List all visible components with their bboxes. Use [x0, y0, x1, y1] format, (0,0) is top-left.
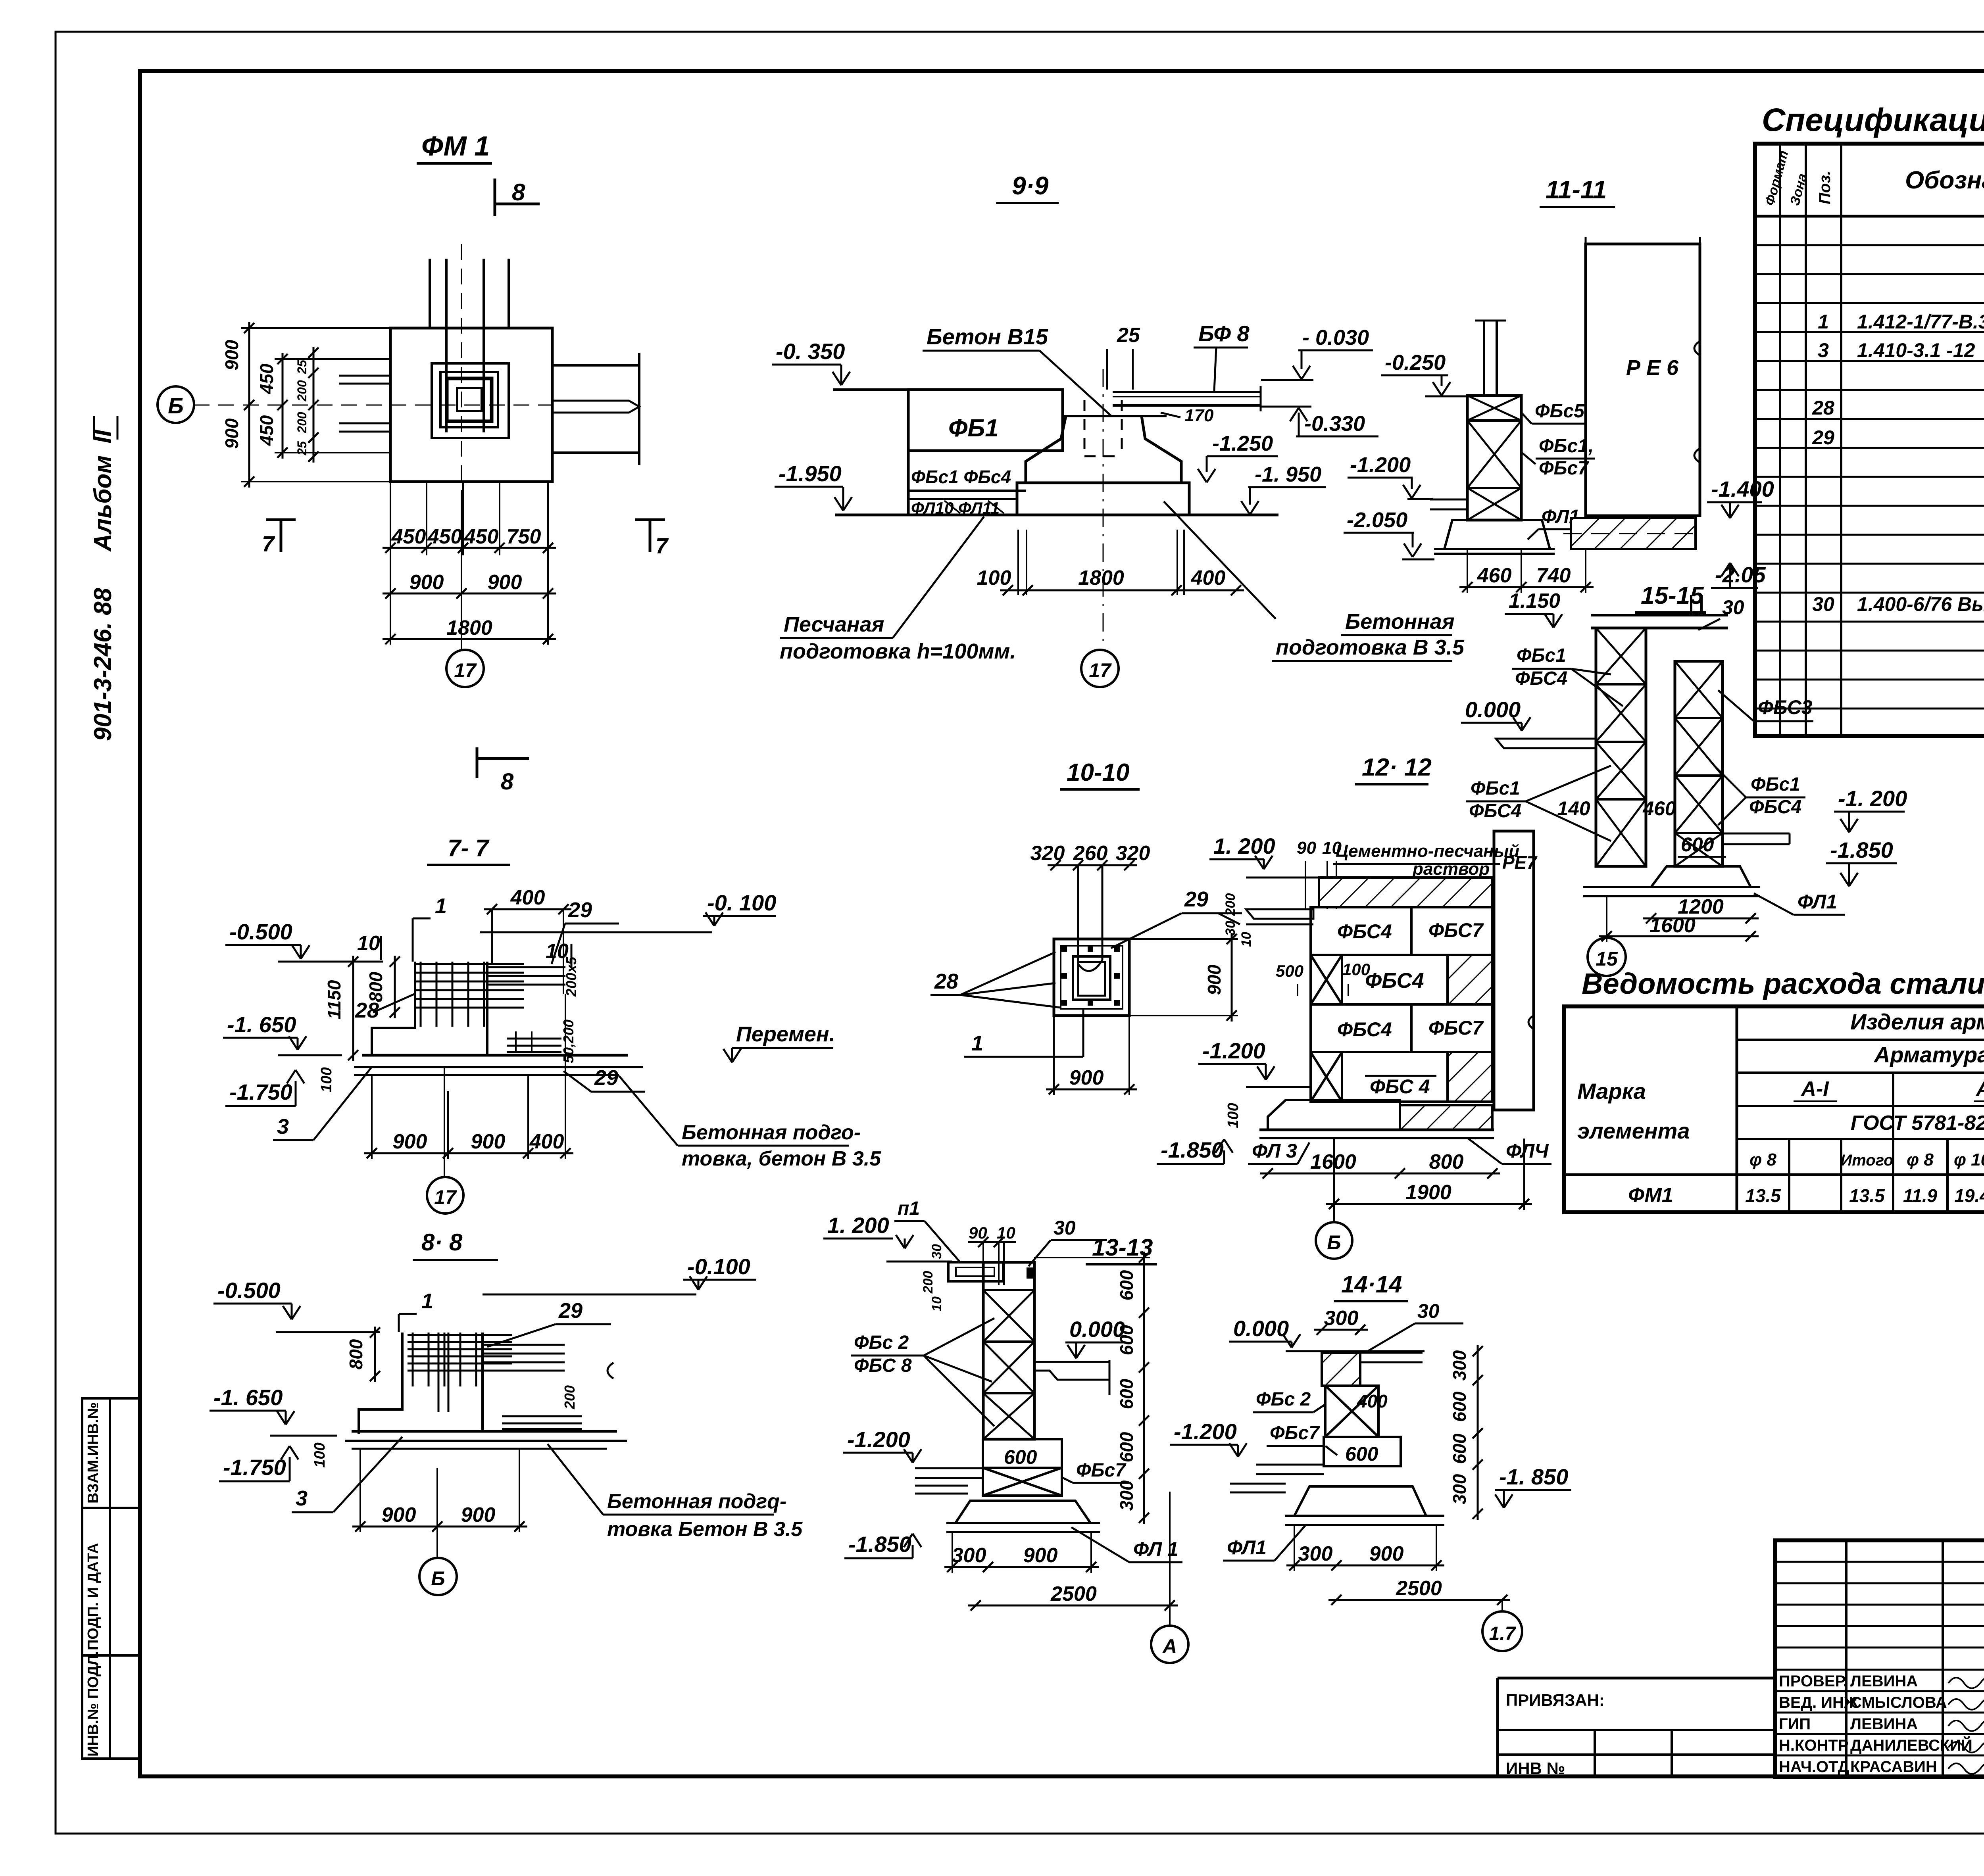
svg-text:900: 900 [221, 340, 242, 370]
svg-text:10: 10 [1239, 932, 1254, 947]
svg-text:-1.850: -1.850 [1161, 1137, 1224, 1162]
svg-text:450: 450 [256, 363, 277, 394]
svg-text:10: 10 [997, 1223, 1015, 1242]
svg-text:600: 600 [1004, 1446, 1037, 1468]
steel table grid [1564, 1006, 1984, 1212]
svg-text:900: 900 [221, 418, 242, 449]
centerline axis 9-9 [1103, 369, 1104, 647]
section cut mark 7 left [266, 518, 296, 521]
svg-text:0.000: 0.000 [1465, 697, 1521, 722]
svg-text:3: 3 [1818, 339, 1829, 361]
svg-text:800: 800 [346, 1339, 366, 1369]
rebar cage 7-7 verticals [420, 962, 422, 1027]
svg-text:ФМ 1: ФМ 1 [421, 131, 490, 161]
svg-text:ФБс1: ФБс1 [1517, 645, 1566, 666]
svg-text:400: 400 [510, 886, 545, 909]
svg-text:ФБс 2: ФБс 2 [854, 1332, 909, 1353]
svg-text:Р Е 6: Р Е 6 [1626, 356, 1679, 380]
svg-text:100: 100 [1225, 1103, 1242, 1128]
svg-text:8· 8: 8· 8 [421, 1229, 463, 1256]
svg-text:300: 300 [1116, 1480, 1137, 1511]
14-14 bottom dims 300 900 [1286, 1565, 1444, 1567]
axis circle 1.7 [1501, 1600, 1503, 1611]
12-12 wall row3 FBS4 FBS7 [1311, 1004, 1411, 1052]
12-12 row4 hatched right [1448, 1052, 1492, 1102]
svg-text:ФБС4: ФБС4 [1469, 801, 1521, 822]
vertical dim 800 7-7 [394, 956, 396, 1018]
svg-text:ФБС7: ФБС7 [1428, 919, 1484, 941]
10-10 inner square [1073, 956, 1110, 1000]
12-12 X block row4 [1311, 1052, 1342, 1102]
svg-text:Цементно-песчаный: Цементно-песчаный [1336, 841, 1519, 861]
rebar cage 8-8 verticals [412, 1333, 414, 1386]
svg-text:13.5: 13.5 [1745, 1185, 1781, 1206]
svg-text:900: 900 [393, 1130, 427, 1153]
11-11 bottom dims 460 740 [1467, 549, 1468, 593]
svg-text:1.150: 1.150 [1509, 589, 1560, 613]
svg-text:φ 10: φ 10 [1954, 1150, 1984, 1169]
8-8 foundation slab [352, 1430, 617, 1433]
svg-text:Б: Б [431, 1567, 445, 1590]
svg-text:300: 300 [1324, 1307, 1359, 1330]
svg-text:460: 460 [1642, 797, 1676, 820]
svg-text:100: 100 [977, 566, 1011, 589]
svg-text:А-I: А-I [1800, 1077, 1829, 1100]
svg-text:600: 600 [1449, 1391, 1470, 1422]
svg-text:90: 90 [969, 1223, 987, 1242]
svg-text:901-3-246. 88: 901-3-246. 88 [89, 588, 117, 741]
svg-text:15: 15 [1596, 948, 1618, 970]
svg-text:Спецификация монолитных фунд: Спецификация монолитных фундаментов [1762, 102, 1984, 138]
svg-text:25: 25 [295, 441, 309, 456]
10-10 extension bars into section [1077, 865, 1079, 964]
14-14 right dim column 300 600 600 300 [1477, 1345, 1479, 1520]
black anchor square 13-13 [1027, 1267, 1035, 1279]
pedestal of monolithic foundation [1026, 416, 1066, 483]
svg-text:ФБс7: ФБс7 [1539, 458, 1589, 479]
svg-text:-0.500: -0.500 [229, 919, 292, 944]
svg-text:300: 300 [1298, 1542, 1333, 1565]
svg-text:1600: 1600 [1649, 914, 1696, 937]
centerline through hatched strip [1563, 533, 1702, 534]
svg-text:А: А [1162, 1635, 1177, 1657]
svg-text:30: 30 [1054, 1217, 1076, 1239]
svg-text:19.4: 19.4 [1954, 1185, 1984, 1206]
15-15 column 1 X-blocks [1596, 628, 1646, 866]
svg-text:3: 3 [277, 1115, 289, 1139]
svg-text:-1.200: -1.200 [847, 1427, 910, 1452]
svg-text:-1.200: -1.200 [1202, 1038, 1265, 1063]
svg-text:30: 30 [1223, 921, 1238, 936]
svg-text:17: 17 [454, 659, 477, 682]
embedded plate left 12-12 [1246, 909, 1313, 919]
svg-text:ФБс5: ФБс5 [1535, 401, 1585, 422]
svg-text:-1.200: -1.200 [1174, 1419, 1237, 1444]
12-12 X block row2 [1311, 955, 1342, 1004]
svg-text:2500: 2500 [1050, 1582, 1097, 1605]
15-15 top slab [1591, 614, 1728, 616]
svg-text:1900: 1900 [1405, 1181, 1451, 1204]
svg-text:Обозначение: Обозначение [1905, 167, 1984, 194]
level line -0.100 7-7 [480, 931, 712, 933]
15-15 footing trapezoid [1651, 866, 1751, 887]
level line 0.000 14-14 [1286, 1350, 1425, 1352]
dim 400 7-7 [484, 908, 571, 910]
15-15 small pipe above column2 [1690, 595, 1692, 615]
svg-text:РЕ7: РЕ7 [1502, 852, 1538, 873]
section cut mark 8 upper [494, 179, 496, 216]
12-12 footing slab [1259, 1129, 1494, 1131]
svg-text:460: 460 [1477, 564, 1512, 587]
svg-text:φ 8: φ 8 [1907, 1150, 1934, 1169]
svg-text:8: 8 [501, 769, 514, 795]
FM1 left dim tier1 900/900 [248, 322, 250, 488]
level line -0.500 7-7 [278, 961, 383, 963]
svg-text:750: 750 [507, 525, 541, 548]
axis circle 15 [1588, 938, 1626, 976]
rebar cage 7-7 horizontals [415, 963, 524, 965]
svg-text:ВЕД. ИНЖ: ВЕД. ИНЖ [1779, 1694, 1859, 1711]
level line -0.100 8-8 [483, 1294, 696, 1296]
svg-text:-1.750: -1.750 [229, 1079, 292, 1104]
leader BF 8 [1214, 348, 1216, 391]
svg-text:ФБС 4: ФБС 4 [1370, 1075, 1430, 1098]
svg-text:600: 600 [1116, 1379, 1137, 1409]
svg-text:1.410-3.1 -12: 1.410-3.1 -12 [1857, 339, 1975, 361]
13-13 dim 2500 [968, 1605, 1178, 1607]
14-14 X block [1325, 1386, 1378, 1437]
svg-text:29: 29 [1184, 887, 1208, 911]
svg-text:300: 300 [1449, 1350, 1470, 1381]
level line -1.200 12-12 [1246, 1086, 1309, 1088]
svg-text:ФБс1: ФБс1 [1471, 778, 1520, 799]
svg-text:600: 600 [1116, 1432, 1137, 1462]
14-14 hatched top block [1322, 1353, 1360, 1386]
svg-text:Б: Б [1327, 1231, 1341, 1254]
svg-text:740: 740 [1536, 564, 1571, 587]
7-7 foundation slab [362, 1054, 628, 1057]
svg-text:800: 800 [365, 972, 386, 1002]
FM1 plan right wing [552, 364, 639, 367]
svg-text:450: 450 [391, 525, 426, 548]
svg-text:28: 28 [934, 970, 958, 993]
cage column right edge 8-8 [481, 1333, 484, 1431]
svg-text:1.400-6/76 Вып.1.: 1.400-6/76 Вып.1. [1857, 593, 1984, 615]
FM1 plan centerline vertical [461, 244, 462, 492]
FM1 plan left arm rebar lines [339, 375, 390, 377]
svg-text:900: 900 [488, 571, 522, 594]
svg-text:ФБс 2: ФБс 2 [1256, 1389, 1311, 1410]
svg-text:8: 8 [512, 179, 525, 205]
11-11 column top pipe [1483, 321, 1485, 396]
svg-text:товка Бетон В 3.5: товка Бетон В 3.5 [607, 1518, 803, 1541]
svg-text:ФБс7: ФБс7 [1076, 1460, 1127, 1481]
svg-text:17: 17 [434, 1186, 457, 1208]
vertical dim 800 8-8 [374, 1327, 376, 1382]
svg-text:320: 320 [1030, 842, 1065, 865]
svg-text:7- 7: 7- 7 [448, 835, 490, 861]
embedded plate 13-13 [948, 1262, 1003, 1281]
svg-text:29: 29 [558, 1299, 583, 1323]
svg-text:1.7: 1.7 [1489, 1623, 1517, 1644]
svg-text:ФБС4: ФБС4 [1365, 969, 1424, 993]
svg-text:800: 800 [1429, 1150, 1464, 1173]
svg-text:400: 400 [1357, 1391, 1388, 1411]
10-10 outer square [1054, 939, 1129, 1016]
15-15 column 2 X-blocks [1675, 661, 1723, 866]
hatched concrete strip under RE6 [1571, 518, 1696, 549]
RE7 column [1494, 831, 1534, 1110]
svg-text:-1. 650: -1. 650 [227, 1012, 296, 1037]
svg-text:ФБС7: ФБС7 [1428, 1017, 1484, 1039]
14-14 top dim 300 [1314, 1329, 1368, 1331]
svg-text:100: 100 [1342, 960, 1370, 979]
svg-text:ПРИВЯЗАН:: ПРИВЯЗАН: [1506, 1691, 1605, 1709]
svg-text:7: 7 [656, 533, 669, 558]
svg-text:1. 200: 1. 200 [827, 1213, 889, 1238]
svg-text:-1. 650: -1. 650 [213, 1385, 283, 1410]
cage column left edge 8-8 [359, 1333, 402, 1434]
svg-text:-1.850: -1.850 [1830, 837, 1893, 862]
svg-text:50,200: 50,200 [560, 1020, 577, 1063]
svg-text:-1.950: -1.950 [779, 461, 842, 486]
svg-text:ФЛЧ: ФЛЧ [1506, 1140, 1549, 1162]
title block outer box [1775, 1540, 1984, 1777]
svg-text:раствор: раствор [1412, 859, 1490, 879]
12-12 wall row1 FBS4 FBS7 [1311, 907, 1411, 955]
svg-text:900: 900 [471, 1130, 506, 1153]
svg-text:Итого: Итого [1840, 1152, 1893, 1169]
13-13 right dim column 600x4+300 [1143, 1252, 1145, 1524]
svg-text:-1.750: -1.750 [223, 1455, 286, 1480]
svg-text:600: 600 [1345, 1443, 1378, 1465]
svg-text:Бетон В15: Бетон В15 [927, 324, 1048, 349]
svg-text:-0. 350: -0. 350 [776, 339, 845, 364]
svg-text:ФЛ1: ФЛ1 [1227, 1536, 1267, 1559]
svg-text:600: 600 [1449, 1433, 1470, 1464]
svg-text:7: 7 [262, 531, 275, 556]
svg-text:-2.050: -2.050 [1347, 508, 1407, 532]
12-12 row4 FBS4 bottom [1342, 1052, 1448, 1102]
svg-text:100: 100 [318, 1067, 335, 1092]
svg-text:320: 320 [1116, 842, 1150, 865]
svg-text:140: 140 [1557, 797, 1590, 820]
svg-text:Б: Б [168, 393, 184, 418]
svg-text:ФБС4: ФБС4 [1515, 668, 1567, 689]
svg-text:1: 1 [971, 1031, 983, 1055]
8-8 bottom rebar [502, 1415, 582, 1417]
11-11 footing slab [1434, 548, 1555, 550]
svg-text:-1. 950: -1. 950 [1255, 463, 1321, 486]
axis circle B 8-8 [436, 1532, 438, 1558]
level line -1.650 8-8 [270, 1435, 337, 1437]
FM1 plan outer square [390, 328, 552, 482]
leader beton B15 [1040, 351, 1111, 416]
13-13 X-block column [983, 1262, 1034, 1439]
svg-text:Песчаная: Песчаная [784, 613, 884, 636]
FM1 left dim tier3 25 200 200 25 [313, 347, 315, 463]
svg-text:11-11: 11-11 [1546, 175, 1607, 204]
FB1 block [908, 390, 1063, 451]
svg-text:ФЛ1: ФЛ1 [1798, 891, 1837, 913]
FBs1 FBs4 row [908, 449, 1061, 452]
svg-text:ФБС4: ФБС4 [1337, 1018, 1392, 1041]
svg-text:11.9: 11.9 [1903, 1185, 1938, 1206]
svg-text:-0.250: -0.250 [1385, 351, 1446, 374]
rebar cage 7-7 long bars right [487, 966, 565, 968]
svg-text:450: 450 [464, 525, 499, 548]
svg-text:600: 600 [1681, 833, 1714, 856]
FL10 FL11 band [908, 498, 1017, 500]
FM1 bottom dim tier2 900+900 [383, 593, 556, 595]
axis circle 17 below FM1 [461, 492, 462, 650]
svg-text:12· 12: 12· 12 [1362, 754, 1432, 781]
svg-text:ИНВ №: ИНВ № [1506, 1759, 1565, 1778]
svg-text:-1.200: -1.200 [1350, 453, 1411, 477]
svg-text:25: 25 [1117, 324, 1140, 347]
svg-text:200: 200 [921, 1271, 936, 1294]
12-12 footing [1268, 1100, 1400, 1130]
12-12 row2 FBS4 middle [1342, 955, 1448, 1004]
svg-text:400: 400 [1191, 566, 1226, 589]
rebar cage 8-8 long bars right [483, 1344, 565, 1346]
12-12 dims 1600 800 [1260, 1173, 1500, 1175]
svg-text:900: 900 [409, 571, 444, 594]
svg-text:170: 170 [1184, 406, 1214, 425]
rebar cage 8-8 horizontals [408, 1334, 512, 1336]
svg-text:ФБС 8: ФБС 8 [854, 1355, 912, 1376]
cage column right edge 7-7 [486, 962, 488, 1055]
svg-text:300: 300 [952, 1544, 986, 1567]
svg-text:-0.500: -0.500 [217, 1278, 281, 1303]
level line -0.350 and FB1 top [833, 388, 909, 391]
svg-text:товка, бетон В 3.5: товка, бетон В 3.5 [682, 1147, 881, 1170]
7-7 bottom rebar hooks [507, 1038, 561, 1040]
svg-text:30: 30 [1812, 593, 1834, 615]
svg-text:300: 300 [1449, 1474, 1470, 1504]
central column bars 8-8 [438, 1333, 440, 1412]
beam at 0.000 13-13 [1034, 1361, 1109, 1363]
level line -0.500 8-8 [276, 1331, 380, 1333]
base block 9-9 [1017, 483, 1189, 515]
10-10 top dims 320 260 320 [1048, 864, 1137, 866]
14-14 dim 2500 [1328, 1599, 1510, 1601]
svg-text:1800: 1800 [446, 616, 492, 639]
svg-text:СМЫСЛОВА: СМЫСЛОВА [1850, 1694, 1947, 1711]
svg-text:400: 400 [529, 1130, 564, 1153]
svg-text:элемента: элемента [1577, 1118, 1690, 1143]
svg-text:-1.850: -1.850 [848, 1532, 911, 1557]
svg-text:10: 10 [929, 1296, 944, 1311]
svg-text:НАЧ.ОТД: НАЧ.ОТД [1779, 1758, 1849, 1776]
13-13 footing trapezoid [955, 1501, 1090, 1523]
squiggle break 8-8 [608, 1363, 613, 1379]
svg-text:ЛЕВИНА: ЛЕВИНА [1850, 1672, 1918, 1690]
svg-text:ГИП: ГИП [1779, 1715, 1811, 1733]
svg-text:ФБС4: ФБС4 [1337, 920, 1392, 943]
svg-text:13.5: 13.5 [1849, 1185, 1885, 1206]
svg-text:Изделия арматурные: Изделия арматурные [1850, 1009, 1984, 1034]
12-12 row2 hatched right [1448, 955, 1492, 1004]
dashed anchor box in pedestal [1084, 400, 1086, 456]
axis circle 17 7-7 [444, 1067, 445, 1177]
15-15 dim 1600 [1599, 935, 1759, 937]
level line -0.250 [1425, 396, 1468, 397]
svg-text:-0. 100: -0. 100 [707, 890, 776, 915]
svg-text:0.000: 0.000 [1233, 1316, 1289, 1341]
12-12 dim 1900 [1326, 1203, 1532, 1205]
FM1 plan concentric column squares [432, 363, 509, 438]
svg-text:28: 28 [1812, 397, 1834, 419]
title block signature rows [1775, 1669, 1984, 1671]
section cut mark 8 lower [476, 747, 479, 778]
axis circle B 12-12 [1333, 1138, 1335, 1222]
level line 1.200 12-12 [1246, 877, 1319, 879]
svg-text:ДАНИЛЕВСКИЙ: ДАНИЛЕВСКИЙ [1850, 1736, 1972, 1754]
svg-text:600: 600 [1116, 1325, 1137, 1355]
vertical dim 1150 7-7 [352, 956, 354, 1061]
13-13 block 600 [983, 1439, 1062, 1468]
svg-text:ФБс7: ФБс7 [1270, 1423, 1320, 1444]
svg-text:ФБ1: ФБ1 [948, 415, 999, 442]
svg-text:ФМ1: ФМ1 [1628, 1184, 1673, 1207]
svg-text:Бетонная подгq-: Бетонная подгq- [607, 1490, 786, 1513]
svg-text:3: 3 [296, 1486, 308, 1510]
svg-text:1. 200: 1. 200 [1213, 833, 1275, 858]
10-10 rebar cage square [1061, 946, 1123, 1009]
svg-text:Бетонная: Бетонная [1345, 610, 1455, 634]
svg-text:ФБс1 ФБс4: ФБс1 ФБс4 [911, 467, 1011, 487]
FM1 plan top wing column lines [429, 259, 431, 328]
beam right of hatched block [1360, 1352, 1423, 1354]
svg-text:900: 900 [461, 1503, 496, 1527]
svg-text:ЛЕВИНА: ЛЕВИНА [1850, 1715, 1918, 1733]
svg-text:900: 900 [1369, 1542, 1404, 1565]
svg-text:ФБС4: ФБС4 [1749, 797, 1801, 818]
svg-text:ПРОВЕР.: ПРОВЕР. [1779, 1672, 1848, 1690]
10-10 right dim 900 shared with 12-12 [1231, 933, 1233, 1022]
svg-text:-0.100: -0.100 [687, 1254, 750, 1279]
11-11 X-block column [1467, 396, 1521, 520]
svg-text:ПОДП. И ДАТА: ПОДП. И ДАТА [85, 1543, 102, 1650]
svg-text:2500: 2500 [1396, 1577, 1442, 1600]
svg-text:450: 450 [427, 525, 462, 548]
FM1 plan centerline horizontal from axis B [194, 405, 552, 406]
level line -1.650 7-7 [278, 1054, 342, 1056]
beam right of column2 [1723, 833, 1790, 835]
svg-text:200х5: 200х5 [563, 956, 579, 997]
cage column left edge 7-7 [372, 962, 415, 1055]
svg-text:900: 900 [382, 1503, 416, 1527]
svg-text:п1: п1 [898, 1198, 920, 1219]
svg-text:90: 90 [1297, 838, 1316, 858]
svg-text:30: 30 [1417, 1300, 1440, 1322]
svg-text:450: 450 [256, 415, 277, 446]
svg-text:ФЛ 3: ФЛ 3 [1252, 1140, 1297, 1162]
title block left grid verticals [1845, 1540, 1848, 1777]
privyazan box [1498, 1677, 1775, 1680]
floor slab right of 9-9 [1113, 391, 1261, 393]
15-15 footing slab [1583, 886, 1760, 888]
svg-text:200: 200 [295, 412, 309, 434]
svg-text:29: 29 [568, 898, 592, 922]
svg-text:Марка: Марка [1577, 1079, 1646, 1104]
7-7 bottom dims 900 900 400 [364, 1152, 573, 1154]
svg-text:КРАСАВИН: КРАСАВИН [1850, 1758, 1937, 1776]
beam left 14-14 [1256, 1464, 1324, 1466]
svg-text:ФБс1: ФБс1 [1751, 774, 1800, 795]
svg-text:Н.КОНТР: Н.КОНТР [1779, 1737, 1849, 1754]
